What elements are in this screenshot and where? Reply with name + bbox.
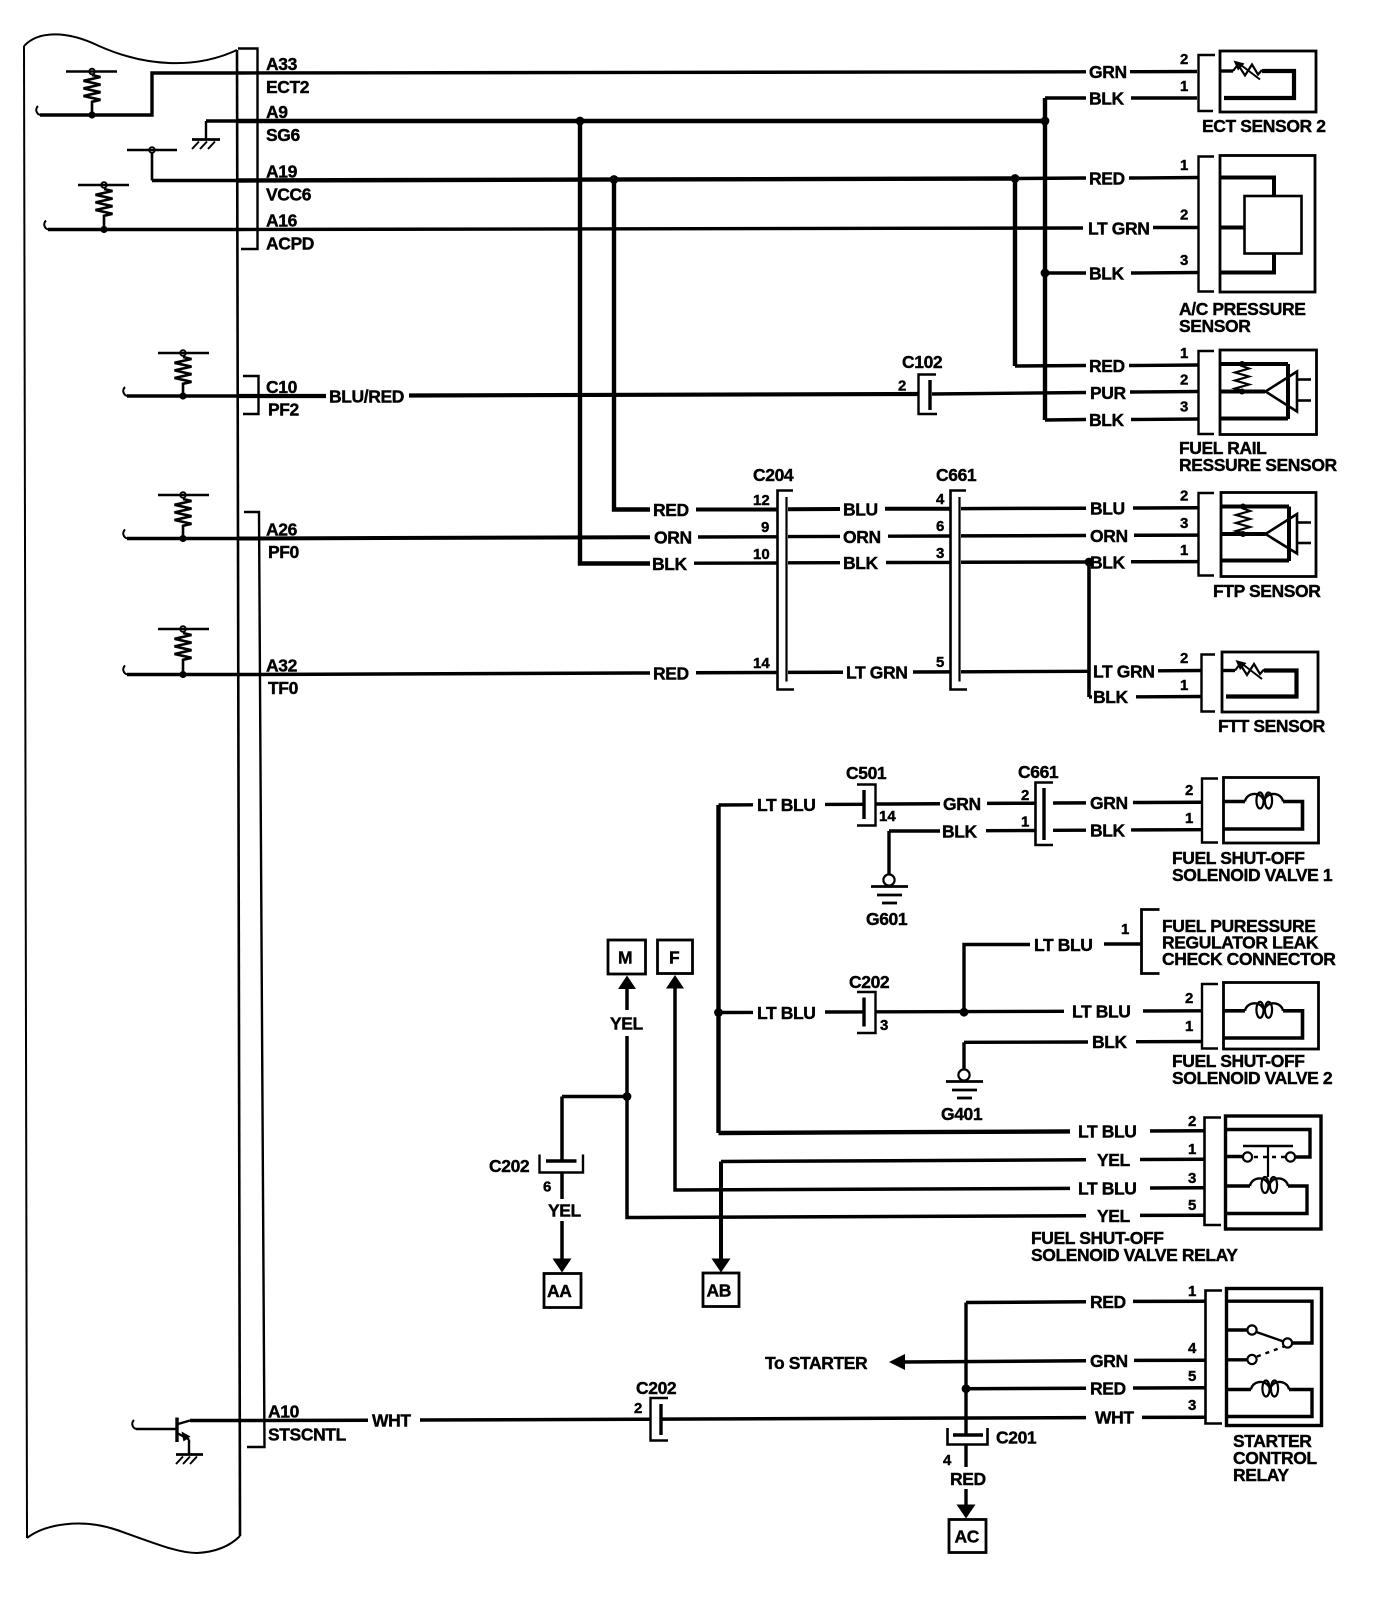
svg-text:ORN: ORN — [654, 528, 692, 548]
starter control relay box — [1227, 1289, 1322, 1426]
svg-text:CHECK CONNECTOR: CHECK CONNECTOR — [1162, 949, 1336, 969]
connector C501 — [846, 763, 896, 826]
wire BLK branch down to FTT sensor pin 1 — [1089, 562, 1201, 707]
svg-text:ACPD: ACPD — [266, 234, 314, 254]
wire GRN C661 to solenoid valve 1 pin 2 — [1053, 793, 1202, 813]
svg-text:BLU: BLU — [843, 500, 878, 520]
wire C10 (PF2) BLU/RED through C102 — [238, 387, 918, 407]
svg-text:1: 1 — [1021, 814, 1029, 831]
svg-text:2: 2 — [1180, 650, 1188, 667]
svg-text:2: 2 — [1185, 782, 1193, 799]
resistor (A33 pull-up inside ECM) — [66, 69, 117, 112]
svg-text:RED: RED — [1090, 1379, 1126, 1399]
svg-text:2: 2 — [1180, 488, 1188, 505]
label A/C PRESSURE SENSOR — [1179, 299, 1305, 336]
pin label A33/ECT2 — [266, 54, 310, 97]
pin label A19/VCC6 — [266, 162, 312, 205]
svg-text:BLK: BLK — [942, 821, 978, 841]
wire (A10 collector to pin) — [190, 1419, 240, 1422]
label FUEL RAIL RESSURE SENSOR — [1179, 438, 1338, 475]
svg-text:6: 6 — [936, 518, 944, 535]
connector (fuel shut-off solenoid valve 1) — [1202, 779, 1218, 843]
ground G401 — [941, 1042, 983, 1124]
wire BLK from G601 to C661 pin 1 — [889, 821, 1036, 841]
svg-text:LT BLU: LT BLU — [1072, 1002, 1131, 1022]
connector (fuel shut-off solenoid valve 2) — [1202, 984, 1218, 1049]
fuel shut-off solenoid valve 1 box — [1224, 778, 1319, 844]
svg-text:C204: C204 — [753, 465, 794, 485]
connector (FTP sensor) — [1199, 493, 1215, 576]
svg-text:BLU/RED: BLU/RED — [329, 387, 404, 407]
svg-text:5: 5 — [1188, 1368, 1196, 1385]
label FUEL SHUT-OFF SOLENOID VALVE 2 — [1172, 1051, 1333, 1088]
ground G601 — [866, 831, 908, 929]
svg-text:4: 4 — [1188, 1340, 1197, 1357]
svg-text:SENSOR: SENSOR — [1179, 316, 1251, 336]
resistor (A26 pull-up inside ECM) — [158, 492, 209, 535]
svg-text:GRN: GRN — [943, 794, 981, 814]
wire up-arrow into F from relay pin 3 — [666, 975, 1205, 1199]
wire LT BLU trunk to relay pin 2 — [719, 1122, 1206, 1142]
svg-text:BLK: BLK — [1089, 89, 1125, 109]
connector (starter control relay) — [1206, 1291, 1223, 1424]
svg-text:BLK: BLK — [1090, 552, 1126, 572]
wire RED to A/C pressure sensor pin 1 — [1015, 169, 1198, 189]
ground (transistor emitter) — [176, 1455, 203, 1465]
wire RED trunk (vertical) — [1013, 179, 1017, 367]
connector box F — [658, 940, 693, 974]
pin label C10/PF2 — [266, 377, 300, 420]
svg-text:WHT: WHT — [372, 1411, 411, 1431]
junction dot (C10 resistor to wire) — [179, 392, 186, 399]
svg-text:2: 2 — [1180, 51, 1188, 68]
wire A33 to ECT sensor 2 pin 2 (GRN) — [238, 62, 1197, 82]
svg-text:GRN: GRN — [1090, 793, 1128, 813]
svg-text:G601: G601 — [866, 909, 908, 929]
wire LT BLU branch to leak check connector — [964, 935, 1141, 1013]
svg-text:ORN: ORN — [1090, 526, 1128, 546]
svg-text:YEL: YEL — [1097, 1206, 1131, 1226]
label FUEL SHUT-OFF SOLENOID VALVE 1 — [1172, 848, 1333, 885]
svg-text:1: 1 — [1185, 810, 1193, 827]
svg-text:SOLENOID VALVE RELAY: SOLENOID VALVE RELAY — [1031, 1245, 1238, 1265]
connector (fuel pressure regulator leak check) — [1142, 910, 1160, 974]
svg-text:1: 1 — [1180, 157, 1188, 174]
ECM connector bracket (pins A33-A16) — [238, 49, 258, 250]
svg-text:2: 2 — [1185, 990, 1193, 1007]
svg-text:6: 6 — [543, 1179, 551, 1196]
wire ORN C661 to FTP sensor pin 3 — [961, 526, 1198, 546]
svg-text:2: 2 — [1180, 372, 1188, 389]
svg-text:A16: A16 — [266, 211, 298, 231]
svg-text:BLK: BLK — [1093, 687, 1129, 707]
svg-text:C102: C102 — [902, 352, 943, 372]
svg-text:AC: AC — [955, 1527, 980, 1547]
junction dot (A33 resistor to wire) — [88, 111, 95, 118]
svg-text:BLK: BLK — [843, 553, 879, 573]
wire (C10 internal) — [123, 387, 238, 396]
svg-text:To STARTER: To STARTER — [765, 1353, 868, 1373]
svg-text:AA: AA — [547, 1281, 572, 1301]
svg-text:RED: RED — [653, 664, 689, 684]
svg-text:1: 1 — [1188, 1141, 1196, 1158]
wire RED drop through C201 to AC — [964, 1389, 967, 1435]
svg-text:BLU: BLU — [1090, 499, 1125, 519]
svg-text:M: M — [618, 948, 632, 968]
svg-text:LT BLU: LT BLU — [1078, 1122, 1137, 1142]
junction dot (BLK to FTT branch) — [1085, 558, 1094, 567]
wire RED branch from A19 down to C204 pin 12 — [614, 180, 778, 521]
connector (fuel rail pressure sensor) — [1199, 351, 1215, 434]
connector box M — [608, 940, 646, 974]
svg-text:BLK: BLK — [1089, 410, 1125, 430]
svg-text:2: 2 — [1180, 207, 1188, 224]
resistor (C10 pull-up inside ECM) — [158, 350, 209, 393]
svg-text:3: 3 — [880, 1017, 888, 1034]
svg-text:LT GRN: LT GRN — [1088, 219, 1149, 239]
wire RED trunk pin1 to pin5 (vertical) — [964, 1303, 967, 1389]
connector C661 — [936, 465, 977, 690]
ECM connector bracket (pin C10) — [243, 376, 259, 414]
wire (A32 internal) — [123, 666, 238, 675]
wire LT BLU trunk (vertical distribution) — [716, 805, 720, 1133]
label STARTER CONTROL RELAY — [1233, 1431, 1317, 1485]
svg-text:RED: RED — [1089, 169, 1125, 189]
wire LT BLU through C202 to solenoid valve 2 pin 2 — [719, 1002, 1202, 1023]
svg-text:C501: C501 — [846, 763, 887, 783]
junction dot (A19 wire / RED trunk) — [1011, 174, 1020, 183]
connector C202 (pin 2) — [634, 1378, 677, 1441]
svg-text:AB: AB — [707, 1281, 731, 1301]
resistor (A32 pull-up inside ECM) — [158, 626, 209, 671]
FTT sensor box — [1222, 652, 1318, 712]
wire RED trunk to fuel rail sensor pin 1 — [1015, 356, 1198, 376]
svg-text:C661: C661 — [1018, 762, 1059, 782]
wire ORN between C204 and C661 — [788, 527, 950, 547]
svg-text:ECT SENSOR 2: ECT SENSOR 2 — [1202, 116, 1326, 136]
junction dot (RED pin1/pin5) — [962, 1384, 971, 1393]
svg-text:RED: RED — [1090, 1292, 1126, 1312]
svg-text:2: 2 — [634, 1400, 642, 1417]
svg-text:ECT2: ECT2 — [266, 77, 310, 97]
svg-text:PUR: PUR — [1090, 383, 1127, 403]
svg-text:1: 1 — [1188, 1283, 1196, 1300]
svg-text:14: 14 — [753, 655, 770, 672]
svg-text:1: 1 — [1180, 542, 1188, 559]
wire LT GRN C661 to FTT sensor pin 2 — [961, 662, 1201, 682]
svg-text:3: 3 — [1188, 1397, 1196, 1414]
svg-text:RED: RED — [1089, 356, 1125, 376]
junction dot (LT BLU trunk / C202 line) — [714, 1008, 723, 1017]
solenoid coil (valve 1) — [1224, 793, 1303, 830]
svg-text:STSCNTL: STSCNTL — [268, 1425, 347, 1445]
svg-text:LT BLU: LT BLU — [757, 795, 816, 815]
connector C202 (pin 6) — [489, 1155, 583, 1196]
svg-text:C202: C202 — [849, 972, 890, 992]
svg-text:3: 3 — [1180, 252, 1188, 269]
svg-text:1: 1 — [1180, 677, 1188, 694]
wire BLU C661 to FTP sensor pin 2 — [961, 499, 1198, 519]
junction dot (A9 wire / BLK branch) — [576, 117, 585, 126]
svg-text:TF0: TF0 — [268, 678, 299, 698]
svg-text:LT GRN: LT GRN — [846, 663, 907, 683]
ECM/PCM block outline — [24, 34, 240, 1553]
svg-text:A10: A10 — [268, 1402, 300, 1422]
connector (ECT sensor 2) — [1199, 55, 1216, 111]
svg-text:SOLENOID VALVE 2: SOLENOID VALVE 2 — [1172, 1068, 1333, 1088]
wire A9 (SG6) to trunk — [238, 119, 1045, 123]
svg-text:1: 1 — [1185, 1018, 1193, 1035]
svg-text:RED: RED — [950, 1469, 986, 1489]
wire BLK trunk to A/C pressure sensor pin 3 — [1045, 264, 1198, 284]
thermistor (FTT sensor) — [1222, 660, 1297, 697]
connector C661 (valve harness) — [1018, 762, 1059, 845]
svg-text:LT BLU: LT BLU — [757, 1003, 816, 1023]
wire BLK C661 to solenoid valve 1 pin 1 — [1053, 821, 1202, 841]
svg-text:YEL: YEL — [1097, 1150, 1131, 1170]
wire (A16 internal) — [44, 221, 238, 230]
svg-text:YEL: YEL — [610, 1014, 644, 1034]
ECT sensor 2 box — [1220, 51, 1316, 112]
svg-text:1: 1 — [1180, 78, 1188, 95]
svg-text:SOLENOID VALVE 1: SOLENOID VALVE 1 — [1172, 865, 1333, 885]
wire RED starter relay pin 5 — [966, 1379, 1205, 1399]
relay coil (starter control relay) — [1227, 1381, 1313, 1417]
pin label A26/PF0 — [266, 520, 300, 563]
svg-text:5: 5 — [1188, 1197, 1196, 1214]
connector (fuel shut-off solenoid valve relay) — [1205, 1118, 1222, 1226]
wire ECT sensor 2 pin 1 (BLK) to ground trunk — [1045, 89, 1197, 109]
svg-text:LT BLU: LT BLU — [1034, 935, 1093, 955]
wire (A26 internal) — [123, 530, 238, 539]
wire PUR to fuel rail sensor pin 2 — [932, 383, 1198, 403]
svg-text:14: 14 — [879, 808, 896, 825]
svg-text:3: 3 — [936, 545, 944, 562]
svg-text:YEL: YEL — [548, 1201, 582, 1221]
svg-text:FTT SENSOR: FTT SENSOR — [1218, 716, 1326, 736]
pin label A16/ACPD — [266, 211, 314, 254]
svg-text:PF2: PF2 — [268, 400, 300, 420]
connector C102 — [898, 352, 943, 414]
svg-text:C202: C202 — [489, 1156, 530, 1176]
wire BLK ground trunk (vertical) — [1043, 98, 1047, 420]
connector C204 — [753, 465, 794, 690]
wire YEL relay pin 1 to AB — [712, 1150, 1206, 1273]
relay coil (fuel shut-off relay) — [1226, 1177, 1308, 1214]
wire BLK C661 to FTP sensor pin 1 — [961, 552, 1198, 572]
svg-text:4: 4 — [943, 1452, 952, 1469]
wire (A33 internal) — [36, 73, 238, 115]
junction dot (LT BLU / leak check branch) — [960, 1008, 969, 1017]
resistor (A16 pull-up inside ECM) — [78, 182, 129, 226]
pin label A32/TF0 — [266, 656, 299, 699]
junction dot (BLK trunk to A/C sensor pin3) — [1041, 269, 1050, 278]
connector C202 (pin 3) — [849, 972, 890, 1034]
A/C pressure sensor element — [1220, 178, 1302, 273]
wire YEL up-arrow into M — [610, 976, 644, 1097]
fuel shut-off solenoid valve 2 box — [1224, 983, 1319, 1050]
svg-text:C202: C202 — [636, 1378, 677, 1398]
svg-text:BLK: BLK — [1089, 264, 1125, 284]
svg-text:GRN: GRN — [1090, 1351, 1128, 1371]
svg-text:LT BLU: LT BLU — [1078, 1179, 1137, 1199]
svg-text:RESSURE SENSOR: RESSURE SENSOR — [1179, 455, 1338, 475]
connector (FTT sensor) — [1202, 655, 1216, 712]
svg-text:BLK: BLK — [652, 554, 688, 574]
svg-text:WHT: WHT — [1095, 1408, 1134, 1428]
relay switch (starter control relay) — [1227, 1301, 1313, 1364]
fuel rail pressure sensor element — [1220, 361, 1311, 419]
solenoid coil (valve 2) — [1224, 1002, 1303, 1038]
wire LT BLU to C501 — [719, 795, 866, 815]
svg-text:RED: RED — [653, 500, 689, 520]
wire GRN starter relay pin 4 (to starter arrow) — [889, 1351, 1205, 1371]
svg-text:1: 1 — [1180, 345, 1188, 362]
svg-text:SG6: SG6 — [266, 125, 300, 145]
wire BLK solenoid valve 2 pin 1 to G401 — [964, 1032, 1202, 1052]
pin label A9/SG6 — [266, 102, 300, 145]
ECM connector bracket (pins A26,A32,A10) — [244, 512, 265, 1447]
svg-text:LT GRN: LT GRN — [1093, 662, 1154, 682]
svg-text:GRN: GRN — [1089, 62, 1127, 82]
wire RED starter relay pin 1 — [966, 1292, 1205, 1312]
svg-text:12: 12 — [753, 492, 770, 509]
wire BLK branch from A9 down to C204 pin 10 — [580, 121, 778, 574]
svg-text:9: 9 — [761, 519, 769, 536]
junction dot (A16 resistor to wire) — [100, 226, 107, 233]
svg-text:FTP SENSOR: FTP SENSOR — [1213, 581, 1321, 601]
junction dot (YEL branch to AA) — [623, 1092, 632, 1101]
wire BLU between C204 and C661 — [788, 500, 950, 520]
svg-text:1: 1 — [1121, 921, 1129, 938]
svg-text:VCC6: VCC6 — [266, 185, 312, 205]
svg-text:10: 10 — [753, 546, 770, 563]
svg-text:3: 3 — [1180, 399, 1188, 416]
wire LT GRN between C204 and C661 — [788, 663, 950, 683]
svg-text:PF0: PF0 — [268, 542, 300, 562]
junction dot (A19 wire / RED branch to C204) — [610, 175, 619, 184]
connector C201 — [943, 1428, 1037, 1470]
svg-text:A33: A33 — [266, 54, 298, 74]
svg-text:BLK: BLK — [1092, 1032, 1128, 1052]
fuel rail pressure sensor box — [1220, 350, 1317, 435]
transistor (A10 driver inside ECM) — [132, 1418, 190, 1454]
junction dot (A9/BLK trunk) — [1041, 117, 1050, 126]
label FUEL PURESSURE REGULATOR LEAK CHECK CONNECTOR — [1162, 916, 1336, 969]
connector (A/C pressure sensor) — [1199, 157, 1215, 292]
wire A16 (ACPD) LT GRN to A/C pressure sensor pin 2 — [238, 219, 1198, 239]
svg-text:2: 2 — [1188, 1113, 1196, 1130]
wire branch to AA via C202 pin 6 — [562, 1097, 627, 1162]
label FUEL SHUT-OFF SOLENOID VALVE RELAY — [1031, 1228, 1238, 1265]
svg-text:BLK: BLK — [1090, 821, 1126, 841]
svg-text:G401: G401 — [941, 1104, 983, 1124]
svg-text:C661: C661 — [936, 465, 977, 485]
wire A19 (VCC6) to RED trunk — [238, 179, 1015, 181]
ground (SG6 internal) — [192, 121, 238, 149]
wire A26 (PF0) ORN to C204 pin 9 — [238, 528, 778, 548]
svg-text:2: 2 — [1021, 787, 1029, 804]
thermistor (ECT sensor 2) — [1220, 61, 1294, 99]
wire BLK between C204 and C661 — [788, 553, 950, 573]
svg-text:F: F — [669, 948, 680, 968]
wire A32 (TF0) RED to C204 pin 14 — [238, 664, 778, 684]
svg-text:C201: C201 — [996, 1428, 1037, 1448]
FTP sensor box — [1221, 493, 1316, 577]
wire WHT from A10 through C202 to starter relay pin 3 — [238, 1408, 1205, 1431]
junction dot (A32 resistor to wire) — [179, 671, 186, 678]
wire RED down-arrow to AC — [950, 1445, 986, 1519]
svg-text:2: 2 — [898, 378, 906, 395]
connector box AB — [703, 1273, 739, 1307]
junction dot (A26 resistor to wire) — [179, 535, 186, 542]
A/C pressure sensor box — [1220, 156, 1315, 293]
FTP sensor element — [1221, 504, 1311, 562]
pin label A10/STSCNTL — [268, 1402, 347, 1445]
svg-text:5: 5 — [936, 654, 944, 671]
svg-text:ORN: ORN — [843, 527, 881, 547]
svg-text:3: 3 — [1188, 1170, 1196, 1187]
connector box AC — [949, 1520, 986, 1553]
wire GRN C501 to C661 pin 2 — [876, 794, 1036, 814]
svg-text:A32: A32 — [266, 656, 298, 676]
svg-text:4: 4 — [936, 491, 945, 508]
internal power node (A19/VCC6) — [127, 147, 238, 180]
wire YEL down-arrow to AA — [548, 1173, 582, 1273]
svg-text:3: 3 — [1180, 515, 1188, 532]
svg-text:RELAY: RELAY — [1233, 1465, 1289, 1485]
relay switch (fuel shut-off relay) — [1226, 1130, 1311, 1178]
wire BLK trunk to fuel rail sensor pin 3 — [1045, 410, 1198, 430]
fuel shut-off solenoid valve relay box — [1226, 1116, 1322, 1229]
connector box AA — [544, 1274, 581, 1308]
wire YEL M-branch down to relay pin 5 — [627, 1097, 1205, 1227]
